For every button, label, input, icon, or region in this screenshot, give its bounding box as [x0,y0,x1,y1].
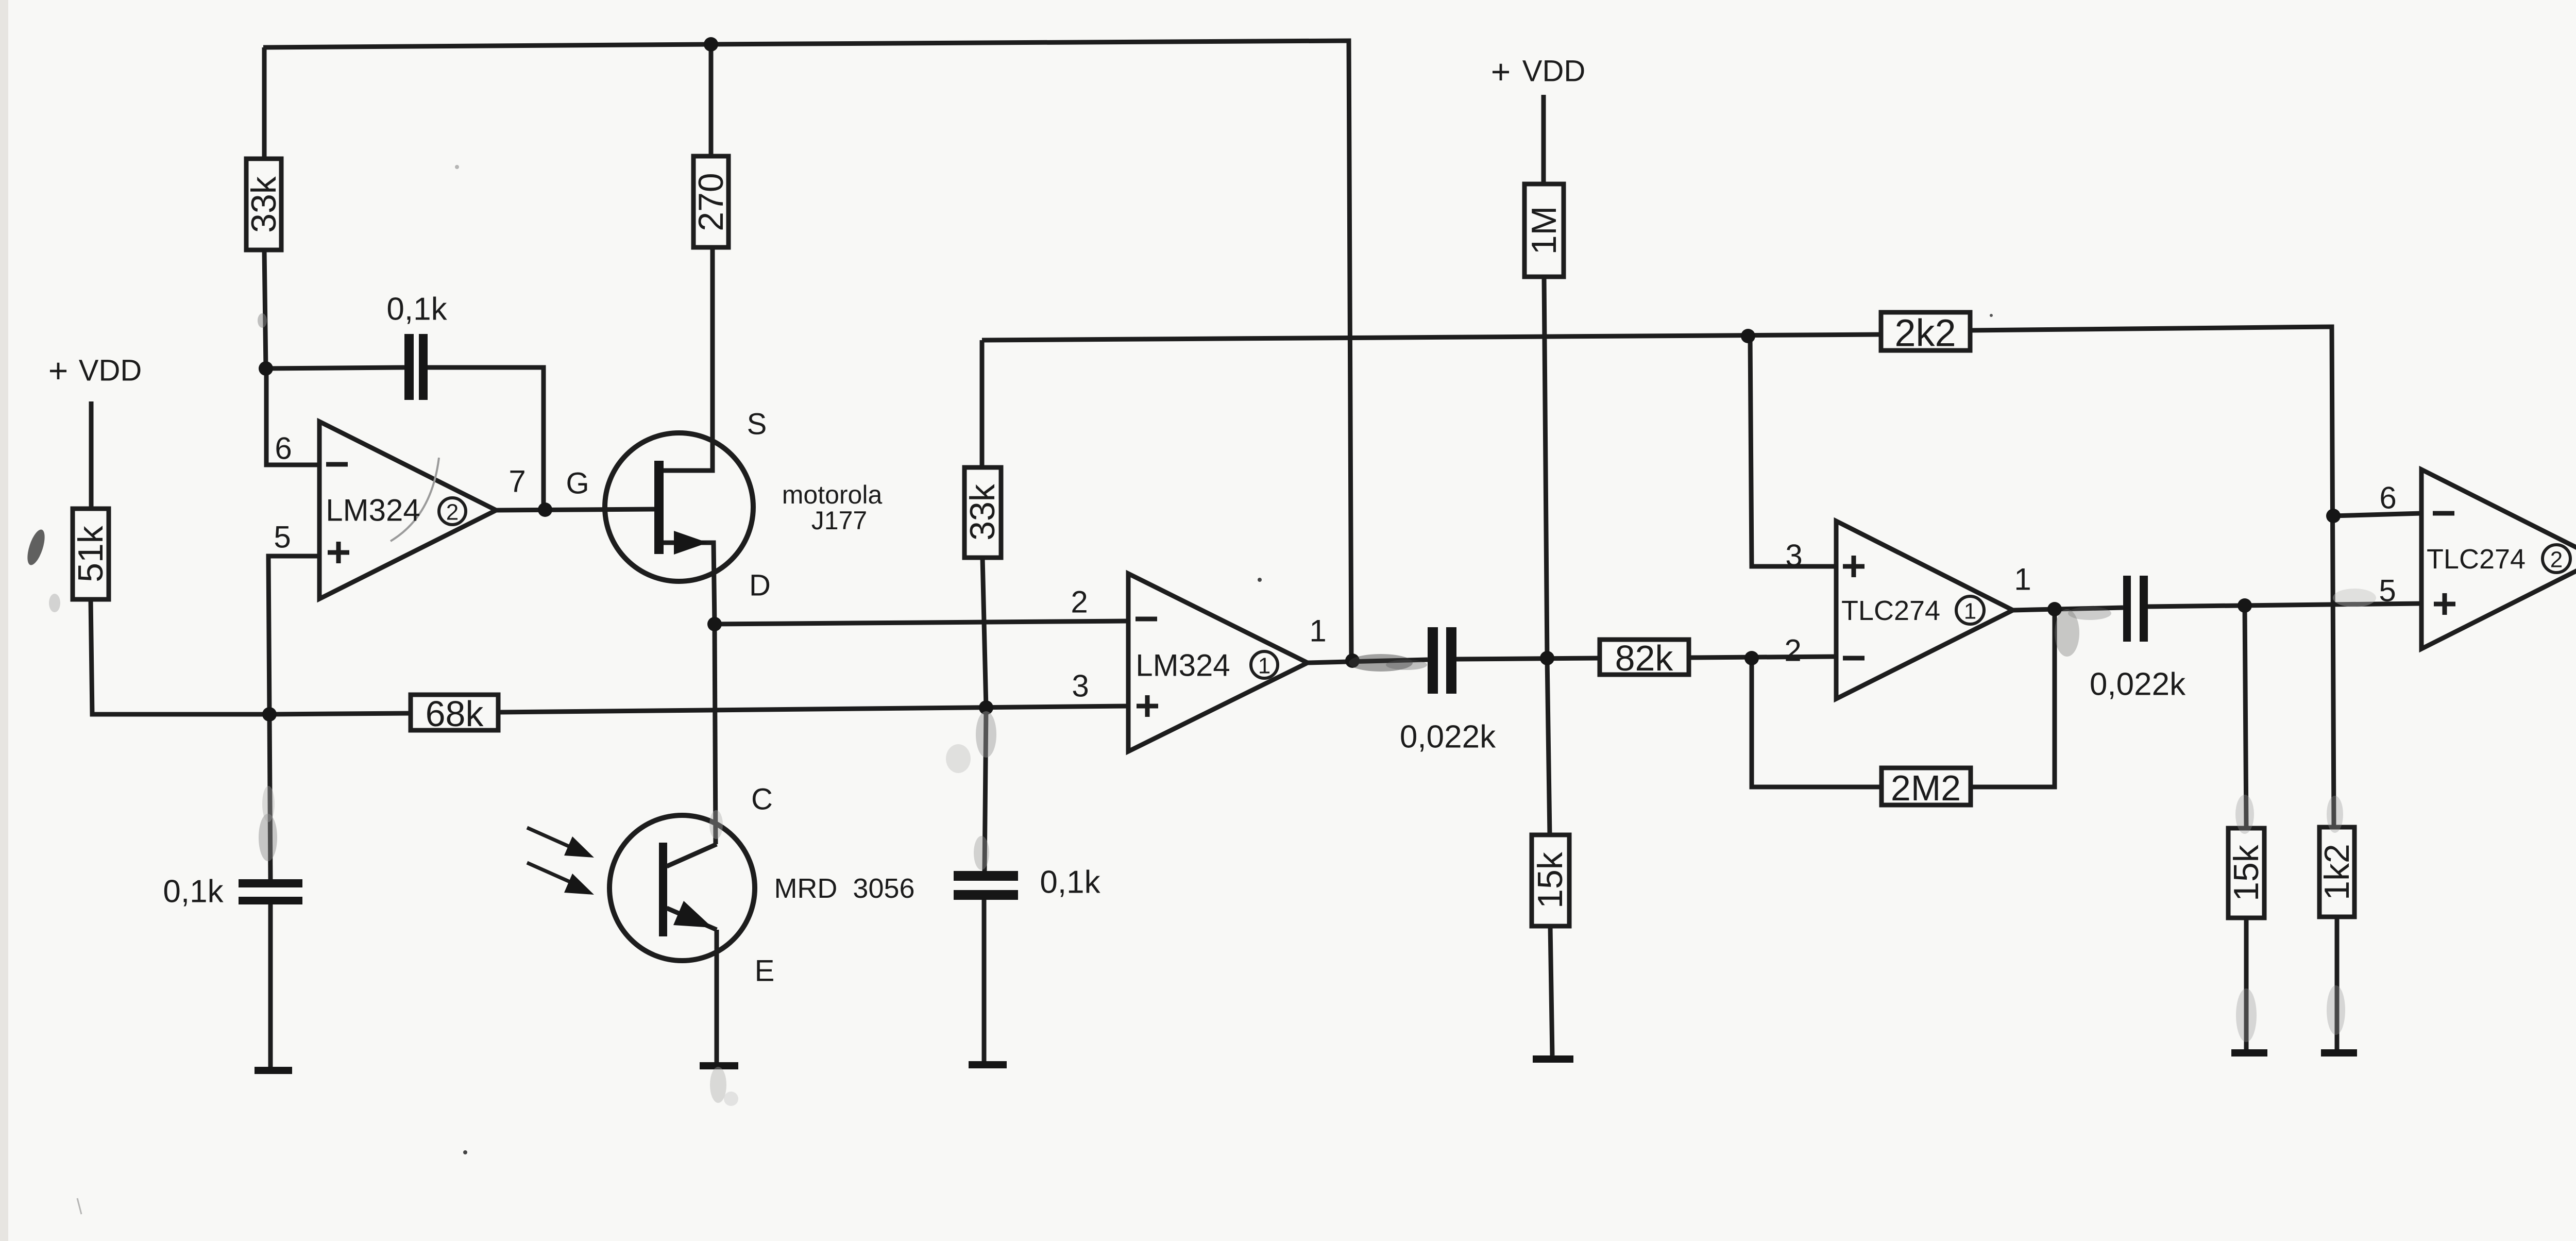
svg-text:33k: 33k [244,176,283,233]
svg-text:LM324: LM324 [326,493,420,528]
svg-text:VDD: VDD [79,354,142,388]
wire pin-5 node down to 15k R10 [2245,606,2246,828]
wire 1M R6 to node X [1544,277,1547,658]
svg-text:2: 2 [1784,633,1801,668]
svg-text:0,022k: 0,022k [1400,719,1496,755]
wire 270 R2 top lead [709,44,714,156]
wire pin-2 node down to 2M2 R9 [1752,658,1882,787]
node: 82k / pin 2 TLC274(1) / 2M2 [1744,651,1759,665]
wire 33k R1 top lead [262,47,267,159]
node D: JFET drain / pin 2 / collector [707,617,722,631]
svg-text:+: + [1491,53,1511,91]
ground (phototransistor E) [700,1062,738,1069]
wire LM324(1) output to capacitor C4 [1308,660,1428,663]
scan smudges (decorative, not labelled further) [1349,654,1413,672]
node: TLC274(1) output / 2M2 / C5 [2047,602,2062,616]
svg-text:82k: 82k [1615,638,1674,678]
transistor Q2 MRD 3056 phototransistor [527,815,755,961]
resistor 2M2 (R9) [1882,768,1971,805]
svg-text:motorola: motorola [782,480,883,509]
svg-text:S: S [747,408,767,441]
wire 15k R8 to ground [1550,926,1552,1055]
wire phototransistor emitter to ground [715,930,719,1062]
svg-text:3: 3 [1072,669,1089,703]
svg-text:0,1k: 0,1k [163,874,224,910]
svg-text:7: 7 [509,464,526,499]
svg-text:1: 1 [1309,614,1326,648]
wire node A to capacitor 0,1k C1 [266,367,404,368]
node G: LM324(2) output / C1 / gate [538,502,552,517]
wire C4 to 82k R7 [1456,658,1600,659]
op-amp U2a TLC274(1) [1836,521,2013,699]
node: junction top rail / 270 [704,37,718,52]
wire 33k R5 top lead from 2k2 rail [980,340,985,467]
svg-text:5: 5 [274,520,291,555]
resistor 33k (R5) [964,467,1001,558]
svg-text:270: 270 [691,173,731,231]
svg-text:2k2: 2k2 [1894,312,1956,355]
wire pin-3 node down to capacitor C3 [985,708,986,871]
capacitor 0,1k C3 plates [954,871,1018,881]
wire 33k R1 bottom lead to node A [264,250,266,368]
wire 2k2 rail left section [982,334,1881,340]
svg-text:2: 2 [1071,585,1088,619]
capacitor 0,1k C2 plates [239,879,302,887]
svg-text:0,022k: 0,022k [2090,667,2186,702]
svg-text:2: 2 [446,500,459,525]
resistor 1M (R6) [1524,184,1564,277]
resistor 82k (R8) [1600,640,1689,675]
wire node D to pin 2 of LM324(1) [715,621,1128,624]
node: C5 / pin 5 TLC274(2) / 15k [2238,598,2252,613]
wire node to pin 3 of TLC274(1) [1750,336,1836,566]
wire TLC274(1) output to capacitor C5 [2013,608,2123,610]
wire pin 6 of TLC274(2) [2333,513,2421,516]
svg-text:1M: 1M [1524,206,1564,255]
svg-text:0,1k: 0,1k [386,292,447,327]
wire 2M2 R9 up to TLC274(1) output node [1971,609,2055,787]
wire JFET source lead S [664,247,713,471]
svg-text:68k: 68k [426,694,484,734]
node A: 33k R1 / C1 / pin 6 [259,361,273,376]
wire C2 to ground [268,904,273,1067]
ground (C3) [969,1061,1007,1068]
svg-text:C: C [751,783,773,816]
node: 2k2 rail / pin 3 drop [1741,329,1755,343]
wire VDD to 1M R6 [1541,95,1546,184]
wire VDD to 51k R3 [89,401,94,509]
resistor 51k (R3) [73,509,109,599]
svg-text:51k: 51k [71,525,110,582]
wire C3 to ground [982,900,987,1061]
node: LM324(1) output / top rail / C4 [1345,653,1360,668]
wire C5 to pin 5 of TLC274(2) [2148,603,2421,607]
wire 33k R5 bottom lead to pin-3 node [982,558,986,708]
wire C1 to LM324(2) output node [428,367,544,510]
svg-text:E: E [755,954,775,988]
svg-text:D: D [749,569,771,602]
svg-text:VDD: VDD [1522,55,1585,88]
op-amp U2b TLC274(2) [2421,469,2576,649]
wire 15k R10 to ground [2244,918,2249,1049]
wire 1k2 R11 to ground [2335,917,2340,1049]
wire JFET drain lead D [664,543,715,624]
svg-text:6: 6 [2379,481,2396,515]
svg-text:6: 6 [275,431,292,466]
svg-text:15k: 15k [1531,851,1570,909]
wire node B down to capacitor C2 [269,714,270,879]
wire 2k2 rail right section down to 1k2 [1970,327,2334,827]
wire node X down to 15k R8 [1547,658,1550,835]
svg-text:G: G [566,467,589,500]
resistor 270 (R2) [693,156,728,247]
resistor 33k (R1) [246,159,281,250]
svg-text:1k2: 1k2 [2317,844,2357,900]
resistor 15k (R11) [2228,828,2264,918]
svg-text:15k: 15k [2227,844,2266,901]
wire pin 6 of LM324(2) [266,368,319,465]
svg-text:+: + [48,351,69,390]
capacitor 0,022k C5 plates [2123,576,2131,642]
svg-text:2: 2 [2550,547,2563,573]
capacitor 0,1k C1 plates [404,334,414,400]
wire LM324(2) output to JFET gate G [496,509,654,510]
svg-text:0,1k: 0,1k [1040,865,1100,900]
node: 2k2 / pin 6 TLC274(2) / 1k2 [2326,509,2341,523]
svg-text:LM324: LM324 [1136,648,1230,683]
node X: C4 / 1M / 82k / 15k [1540,651,1554,665]
op-amp U1a LM324(1) [1128,574,1308,751]
wire node B to 68k R4 [269,713,411,714]
ground (1k2 R12) [2321,1049,2357,1056]
svg-text:TLC274: TLC274 [1841,595,1940,626]
capacitor 0,022k C4 plates [1428,627,1438,694]
wire 51k R3 to node B [91,599,269,714]
transistor Q1 J177 JFET [605,433,753,581]
ground (C2) [255,1067,292,1074]
wire pin 5 of LM324(2) [268,556,319,714]
svg-text:5: 5 [2379,574,2396,608]
svg-text:MRD 3056: MRD 3056 [774,873,914,904]
ground (15k R11) [2231,1049,2267,1056]
resistor 15k (R10) [1532,835,1569,926]
resistor 1k2 (R12) [2319,827,2354,917]
resistor 68k (R4) [411,695,498,730]
resistor 2k2 (R7) [1881,312,1970,350]
ground (15k R10) [1533,1055,1573,1063]
svg-text:2M2: 2M2 [1891,768,1961,808]
svg-text:1: 1 [2014,562,2031,597]
svg-text:33k: 33k [963,483,1002,541]
svg-text:TLC274: TLC274 [2427,544,2526,575]
op-amp U1b LM324(2) [319,422,496,599]
wire 68k R4 to pin 3 of LM324(1) [498,706,1128,712]
svg-text:1: 1 [1258,653,1270,679]
node B: 51k / pin 5 / C2 / 68k [262,707,277,722]
wire top rail from 33k to LM324(1) output drop [263,41,1351,661]
node: 33k R5 / 68k wire / C3 [979,700,993,715]
svg-text:3: 3 [1785,539,1802,573]
wire node D down to phototransistor collector C [715,624,716,844]
svg-text:J177: J177 [811,506,867,535]
svg-text:1: 1 [1964,599,1976,624]
wire 82k R7 to pin 2 of TLC274(1) [1689,657,1836,658]
